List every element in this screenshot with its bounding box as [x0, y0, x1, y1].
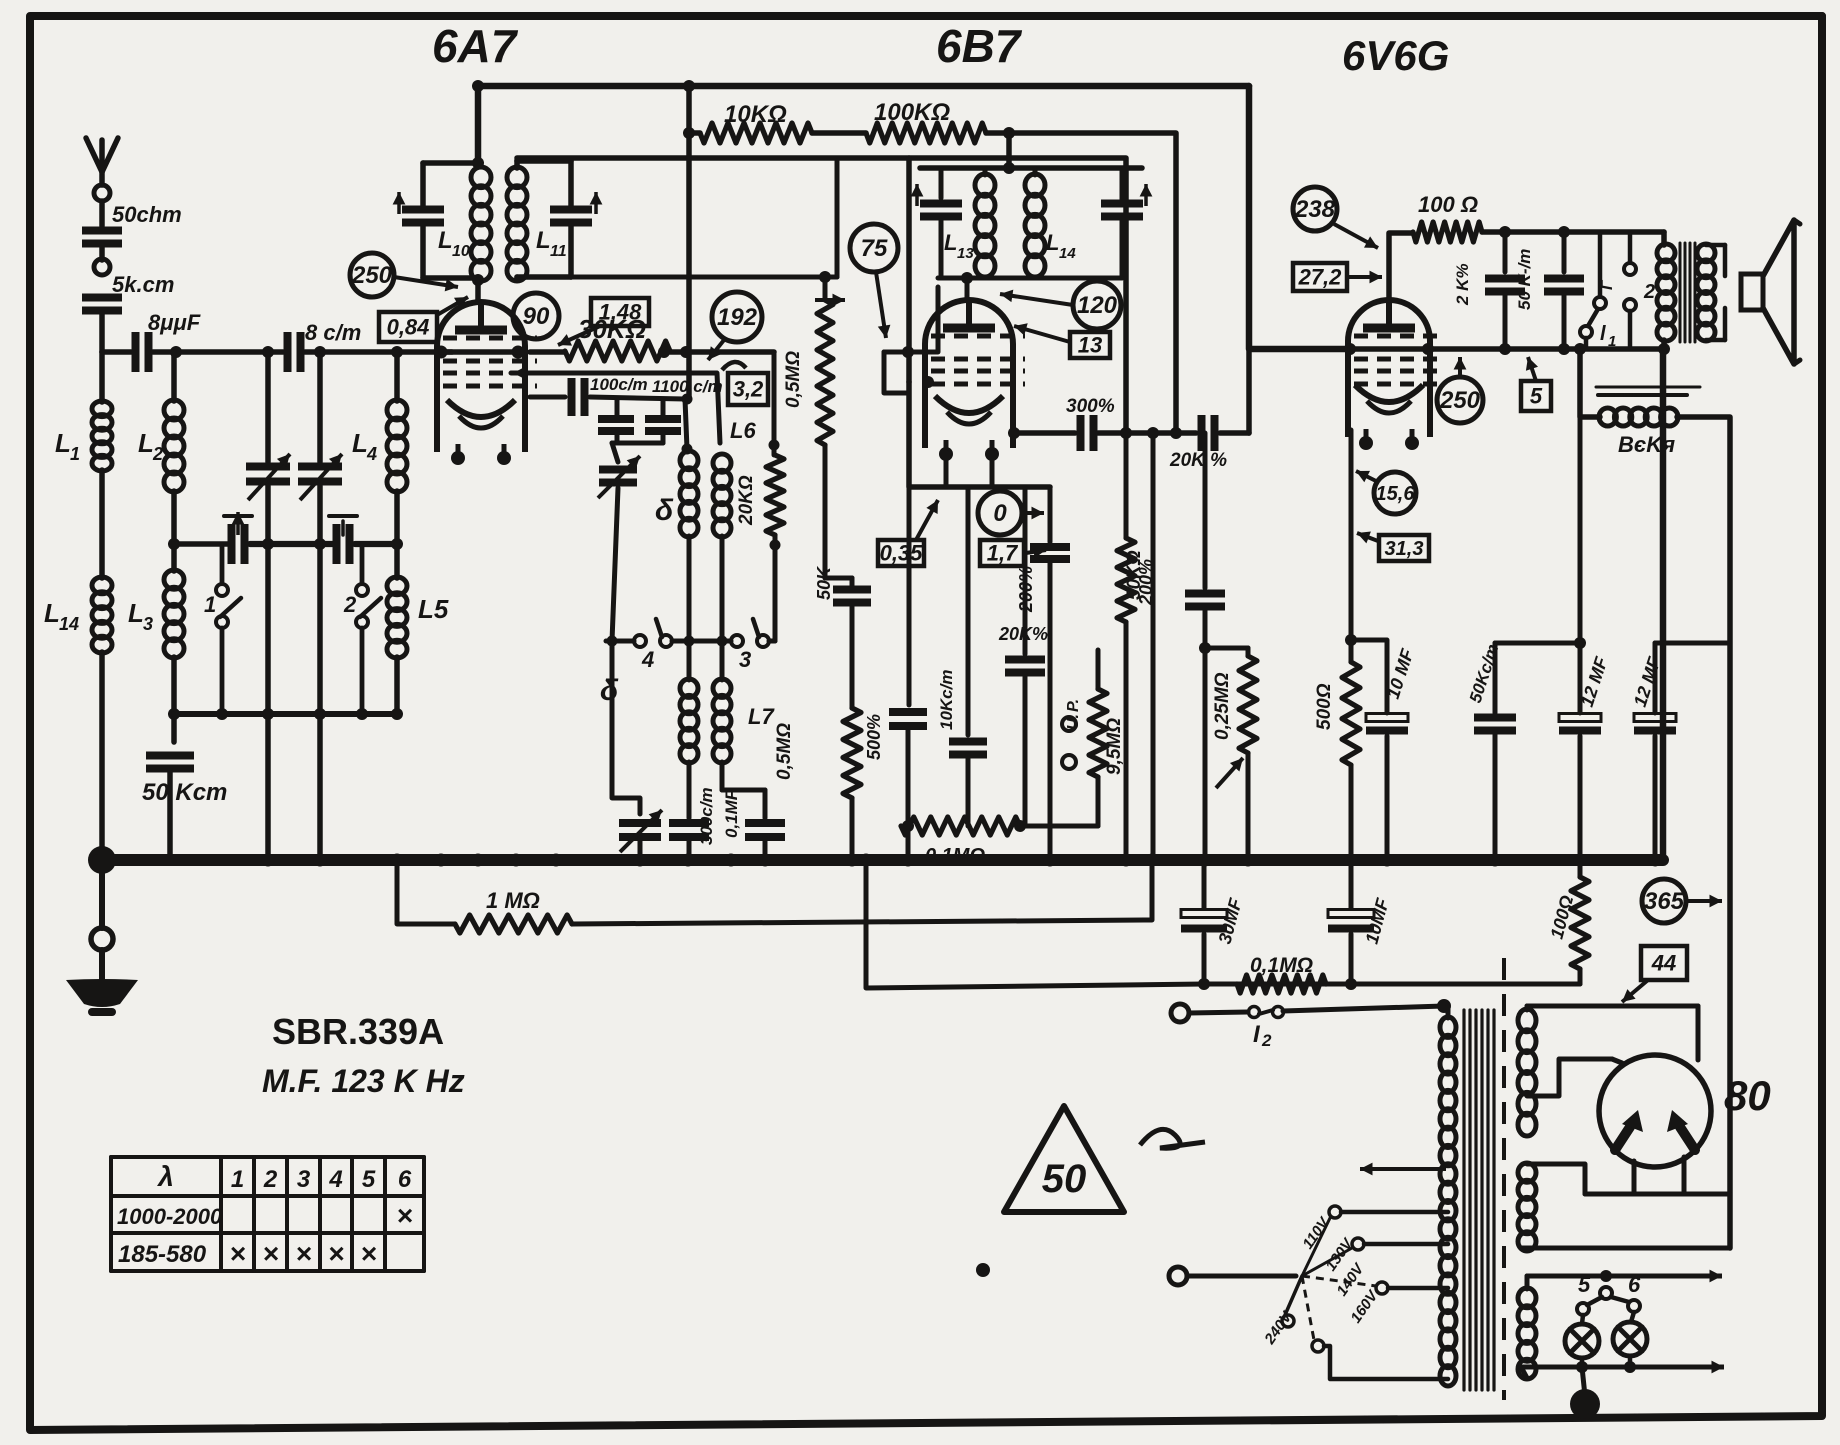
wire [265, 714, 271, 860]
svg-text:20K %: 20K % [1169, 450, 1227, 471]
label L11 [536, 227, 567, 260]
wire [317, 714, 323, 860]
wire [1249, 86, 1345, 349]
wire [1580, 1358, 1585, 1367]
label 50K [814, 565, 834, 600]
node [1422, 343, 1434, 355]
wire [171, 352, 177, 401]
wire [944, 452, 949, 487]
node [1003, 162, 1015, 174]
wire [171, 657, 177, 714]
svg-text:L7: L7 [748, 704, 775, 729]
wire grid through [441, 349, 518, 355]
svg-text:1 MΩ: 1 MΩ [486, 888, 540, 913]
wire lamp line [1527, 1270, 1722, 1289]
arrowhead [513, 367, 530, 380]
resistor 100ohm [1413, 222, 1482, 242]
wire [394, 352, 400, 401]
capacitor 0,1MF [745, 823, 785, 837]
svg-text:6B7: 6B7 [936, 20, 1023, 72]
svg-text:BєKя: BєKя [1618, 432, 1675, 457]
arrow [1356, 471, 1376, 482]
svg-text:13: 13 [957, 245, 974, 262]
capacitor c2 [645, 419, 681, 431]
capacitor 20Kcm b [1202, 415, 1215, 451]
wire [990, 452, 995, 487]
node [262, 708, 274, 720]
svg-text:4: 4 [641, 647, 654, 672]
node [1574, 343, 1586, 355]
svg-text:31,3: 31,3 [1385, 538, 1424, 560]
box label 1,7 [980, 540, 1024, 566]
resistor 0,25M [1239, 656, 1257, 753]
table header 2 [263, 1166, 278, 1193]
label L7 [748, 704, 775, 729]
svg-text:6: 6 [398, 1166, 412, 1193]
svg-text:M.F. 123 K Hz: M.F. 123 K Hz [262, 1063, 465, 1099]
bus node [1489, 854, 1502, 867]
wire [884, 352, 909, 393]
wire [986, 133, 1176, 433]
transformer core [1680, 243, 1695, 342]
title SBR.339A [272, 1011, 444, 1052]
label L13 [944, 230, 974, 262]
table X r2 [229, 1238, 245, 1269]
capacitor 10Kc/m [949, 742, 987, 755]
node [1658, 343, 1670, 355]
bus node [1345, 854, 1358, 867]
label tube 6V6G [1342, 32, 1449, 79]
lamp 2 [1613, 1322, 1647, 1356]
resistor 100K [866, 123, 986, 143]
core hatch [1596, 387, 1700, 395]
title MF 123KHz [262, 1063, 465, 1099]
node [658, 346, 670, 358]
label 2Kc/m [1453, 263, 1472, 306]
triangle 50 [1004, 1106, 1124, 1212]
node [1558, 343, 1570, 355]
filament winding 80 [1518, 1163, 1536, 1251]
wire [983, 168, 988, 175]
node [472, 80, 484, 92]
tap wire [1324, 1346, 1448, 1379]
wire [687, 762, 692, 818]
trimmer arrow [393, 192, 406, 214]
svg-text:120: 120 [1077, 292, 1118, 319]
wire [1706, 308, 1725, 340]
capacitor 500c/m [889, 712, 927, 726]
wire tank top [920, 165, 1142, 171]
wire bminus [866, 860, 1580, 988]
resistor 20K [766, 455, 784, 535]
node [1600, 1270, 1612, 1282]
svg-text:365: 365 [1644, 888, 1685, 915]
label 0,1M ohm [925, 845, 985, 867]
svg-text:2: 2 [1261, 1031, 1272, 1050]
wire 100c/m line [530, 395, 565, 400]
capacitor 8uuF [136, 332, 149, 372]
svg-text:50K: 50K [814, 565, 834, 600]
circle label 90 [513, 293, 559, 339]
terminal [91, 928, 113, 950]
node [683, 127, 695, 139]
capacitor 50ohm [82, 231, 122, 244]
bus node [262, 854, 275, 867]
bus node [902, 854, 915, 867]
svg-text:4: 4 [328, 1166, 342, 1193]
wire 6B7 link [906, 158, 912, 382]
wire rail [174, 541, 228, 547]
node [1499, 343, 1511, 355]
svg-text:50chm: 50chm [112, 202, 182, 227]
label C [1599, 279, 1616, 290]
terminal PU 2 [1062, 755, 1076, 769]
wire [1580, 349, 1600, 417]
wire HV top [1527, 1006, 1698, 1010]
wire [99, 245, 105, 260]
label 300c/m b [1066, 396, 1115, 417]
svg-text:L: L [128, 598, 144, 628]
wire [670, 349, 774, 355]
label 30K ohm [578, 314, 646, 344]
svg-text:500%: 500% [864, 714, 884, 760]
bus node [846, 854, 859, 867]
wire jog 50K [1495, 641, 1580, 646]
circle label 238 [1293, 187, 1337, 231]
wire [772, 352, 777, 455]
svg-text:×: × [229, 1238, 245, 1269]
HV winding [1518, 1009, 1536, 1136]
svg-text:200%: 200% [1136, 559, 1156, 606]
capacitor 8c/m [288, 332, 301, 372]
svg-text:3: 3 [143, 614, 153, 634]
label 160V [1347, 1286, 1382, 1326]
switch 3 [731, 619, 769, 672]
bus node [725, 854, 738, 867]
label 140V [1333, 1259, 1368, 1299]
inductor L3 [164, 570, 184, 658]
svg-text:δ: δ [655, 494, 674, 527]
wire HV tap [1527, 1059, 1612, 1096]
bus node [1044, 854, 1057, 867]
wire [423, 275, 478, 281]
wire [763, 838, 768, 860]
svg-text:L: L [55, 428, 71, 458]
wire [1493, 731, 1498, 860]
capacitor 5kcm [82, 298, 122, 311]
wire [99, 470, 105, 578]
node [902, 346, 914, 358]
wire rail [606, 639, 634, 644]
tap wire [1341, 1210, 1448, 1215]
node [168, 538, 180, 550]
label 100c/m [590, 375, 648, 394]
arrow [1357, 532, 1378, 544]
wire [360, 544, 365, 582]
wire [1482, 229, 1664, 235]
resistor 9,5M [1089, 689, 1107, 777]
wire [1120, 168, 1125, 202]
bus node [1120, 854, 1133, 867]
svg-text:2 K%: 2 K% [1453, 263, 1472, 306]
label 9,5M ohm [1104, 718, 1125, 775]
svg-text:50: 50 [1042, 1157, 1087, 1201]
label 200cm a [1016, 566, 1036, 613]
svg-text:0,84: 0,84 [387, 314, 430, 339]
lamp 1 [1565, 1324, 1599, 1358]
wire [99, 352, 105, 402]
table row 1000-2000 [117, 1204, 223, 1229]
circle label 15,6 [1374, 472, 1416, 514]
box label 1,48 [591, 298, 649, 326]
transformer primary [1440, 1006, 1456, 1386]
node [391, 346, 403, 358]
wire [265, 486, 271, 714]
bus node [1199, 854, 1212, 867]
inductor L2 [164, 400, 184, 492]
capacitor 2Kcm [1485, 279, 1525, 292]
table header 5 [362, 1166, 376, 1193]
label L10 [438, 227, 470, 260]
wire H3 [517, 158, 1126, 433]
svg-text:0,25MΩ: 0,25MΩ [1212, 672, 1233, 740]
svg-text:0,5MΩ: 0,5MΩ [774, 723, 795, 780]
wire [1349, 934, 1354, 984]
label 0,25M ohm [1212, 672, 1233, 740]
wire [720, 641, 725, 680]
resistor 0,5M lower [843, 708, 861, 798]
circle label 250b [1437, 377, 1483, 423]
wire [1246, 349, 1252, 433]
svg-text:50 K-/m: 50 K-/m [1515, 249, 1534, 310]
wire [99, 652, 105, 860]
svg-text:×: × [360, 1238, 376, 1269]
wire [615, 399, 620, 416]
wire grid line to 6A7 [305, 349, 452, 355]
wire [220, 628, 225, 714]
label 0,1MF [722, 789, 741, 838]
wire [265, 352, 271, 462]
arrow [437, 297, 468, 315]
svg-text:0,5MΩ: 0,5MΩ [783, 351, 804, 408]
wire [939, 168, 944, 198]
svg-text:20K%: 20K% [998, 624, 1048, 644]
capacitor 200cm a [1030, 547, 1070, 559]
node [314, 708, 326, 720]
svg-text:6A7: 6A7 [432, 20, 519, 72]
resistor 30K [565, 341, 670, 361]
wire [661, 433, 666, 443]
wire plate top [478, 86, 1249, 163]
svg-text:6: 6 [1628, 1272, 1641, 1297]
svg-text:×: × [328, 1238, 344, 1269]
wire rail [355, 541, 397, 547]
wire [394, 657, 400, 714]
svg-text:1000-2000: 1000-2000 [117, 1204, 223, 1229]
label 80 [1724, 1072, 1771, 1119]
wire middle vertical [686, 86, 692, 399]
label 100 ohm [1418, 192, 1478, 217]
circle label 0 [978, 491, 1022, 535]
svg-text:P.: P. [1065, 699, 1082, 712]
svg-text:90: 90 [523, 303, 550, 330]
node [1199, 642, 1211, 654]
svg-text:2: 2 [152, 444, 163, 464]
wire [689, 130, 700, 136]
label 500 ohm [1314, 683, 1335, 730]
node [1008, 427, 1020, 439]
label 50Kc/m b [1466, 642, 1503, 705]
svg-text:5: 5 [1578, 1272, 1591, 1297]
svg-text:L: L [536, 227, 551, 254]
node [922, 376, 934, 388]
wire [812, 130, 866, 136]
screen dashed [1502, 958, 1506, 1400]
wire rect out [1521, 1246, 1730, 1251]
inductor L7 [713, 679, 731, 763]
svg-text:10Kc/m: 10Kc/m [937, 670, 956, 730]
wire [420, 163, 426, 206]
svg-text:3: 3 [297, 1166, 311, 1193]
wire bus upturn [1660, 349, 1667, 860]
svg-text:13: 13 [1078, 332, 1102, 357]
wire [1661, 232, 1667, 245]
capacitor 300cm b [1081, 415, 1094, 451]
wire [966, 755, 971, 826]
label 10MF b [1362, 895, 1393, 946]
node [356, 708, 368, 720]
label 6b [1628, 1272, 1641, 1297]
wire [568, 161, 574, 206]
arrow [1348, 271, 1382, 284]
inductor L8 [680, 451, 698, 537]
wire [687, 536, 692, 680]
resistor 1M [455, 915, 572, 933]
svg-text:80: 80 [1724, 1072, 1771, 1119]
wire center tap [1006, 133, 1012, 168]
bus node [391, 854, 404, 867]
wire [171, 714, 177, 742]
svg-text:0,1MΩ: 0,1MΩ [925, 845, 985, 867]
resistor 0,5M upper [817, 300, 833, 445]
wire [1120, 218, 1125, 278]
wire tank2 top [517, 158, 571, 164]
arrow [1526, 357, 1538, 381]
svg-text:5: 5 [362, 1166, 376, 1193]
table header 1 [231, 1166, 244, 1193]
tap wire [1388, 1286, 1448, 1291]
wire [514, 160, 520, 168]
bus node [1146, 854, 1159, 867]
wire [1189, 1012, 1248, 1013]
wire 50Kcm column b [1493, 643, 1498, 713]
circle label 250 [350, 253, 394, 297]
bus node [1649, 854, 1662, 867]
label 300c/m [697, 787, 716, 845]
wire to grid cap [475, 280, 481, 302]
node [1345, 978, 1357, 990]
wave table grid [111, 1157, 424, 1271]
wire [1628, 1356, 1633, 1367]
arrow stub [815, 294, 845, 307]
arrow [1026, 546, 1046, 559]
tube 6A7 [437, 302, 537, 465]
terminal PU 1 [1062, 717, 1076, 731]
speaker cone [1763, 220, 1800, 364]
arrow [916, 500, 938, 540]
box label 13 [1070, 332, 1110, 358]
wire [850, 798, 855, 860]
node [1120, 427, 1132, 439]
label 0,5M ohm lower [774, 723, 795, 780]
box label 3,2 [728, 373, 768, 405]
capacitor 20Kcm [1005, 660, 1045, 673]
bus node [1242, 854, 1255, 867]
node [391, 538, 403, 550]
wire [1048, 560, 1053, 860]
wire [1203, 608, 1208, 860]
wire [1220, 430, 1249, 436]
svg-text:14: 14 [1059, 245, 1076, 262]
wire x1153 [1151, 433, 1156, 860]
wire [850, 578, 855, 708]
svg-text:3: 3 [739, 647, 751, 672]
wire [1033, 168, 1038, 175]
capacitor 50K [833, 590, 871, 603]
wire [612, 641, 640, 860]
wire 2K column [1503, 232, 1508, 272]
inductor L10 [471, 167, 491, 281]
terminal mains 1 [1171, 1004, 1189, 1022]
inductor L6 [713, 454, 731, 537]
label L14 [44, 598, 79, 634]
svg-text:0,35: 0,35 [880, 540, 924, 565]
trimmer cap padder 1 [224, 512, 252, 564]
table X r2 [295, 1238, 311, 1269]
wire cage [909, 382, 1050, 487]
wire to ground [99, 860, 105, 928]
wire avc loop [397, 860, 455, 924]
node [314, 346, 326, 358]
terminal mains 2 [1169, 1267, 1187, 1285]
node [1558, 226, 1570, 238]
bus node [472, 854, 485, 867]
node [472, 157, 484, 169]
table row 185-580 [118, 1241, 207, 1268]
svg-text:20KΩ: 20KΩ [736, 475, 757, 526]
svg-text:44: 44 [1651, 950, 1676, 975]
label L9 cursive [600, 674, 619, 707]
svg-text:10: 10 [452, 243, 470, 260]
label 110V [1299, 1213, 1334, 1252]
label L4 [352, 428, 377, 464]
switch I1 [1580, 232, 1616, 350]
resistor 100ohm b [1571, 877, 1589, 969]
switch 2 [343, 584, 381, 628]
label 50 ohm [112, 202, 182, 227]
wire antenna branch down [99, 312, 105, 352]
svg-text:4: 4 [366, 444, 377, 464]
label 8uuF [148, 310, 201, 335]
svg-text:300c/m: 300c/m [697, 787, 716, 845]
bus node [435, 854, 448, 867]
label L1 [55, 428, 80, 464]
wire [1582, 1315, 1583, 1324]
wire [1349, 765, 1354, 860]
svg-text:1: 1 [70, 444, 80, 464]
svg-text:14: 14 [59, 614, 79, 634]
trimmer cap [598, 456, 640, 498]
